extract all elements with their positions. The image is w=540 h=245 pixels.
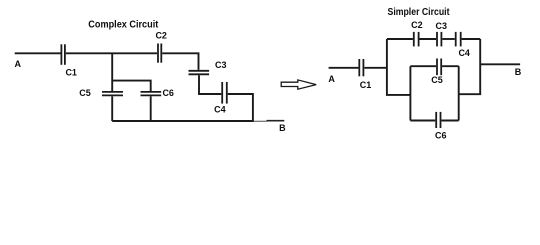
svg-text:B: B	[279, 123, 286, 133]
svg-text:C5: C5	[431, 75, 443, 85]
svg-text:C1: C1	[65, 67, 77, 77]
svg-text:Simpler Circuit: Simpler Circuit	[388, 7, 451, 18]
svg-text:C6: C6	[435, 131, 447, 141]
svg-text:C2: C2	[155, 30, 167, 40]
svg-text:C2: C2	[411, 20, 423, 30]
svg-text:C4: C4	[458, 48, 470, 58]
svg-text:C1: C1	[360, 80, 372, 90]
svg-text:C6: C6	[162, 88, 174, 98]
svg-text:A: A	[328, 74, 335, 84]
svg-text:B: B	[515, 67, 522, 77]
svg-text:C4: C4	[214, 105, 226, 115]
svg-text:A: A	[15, 59, 22, 69]
svg-text:Complex Circuit: Complex Circuit	[88, 20, 159, 31]
svg-text:C3: C3	[436, 21, 448, 31]
svg-text:C5: C5	[79, 88, 91, 98]
svg-text:C3: C3	[215, 60, 227, 70]
